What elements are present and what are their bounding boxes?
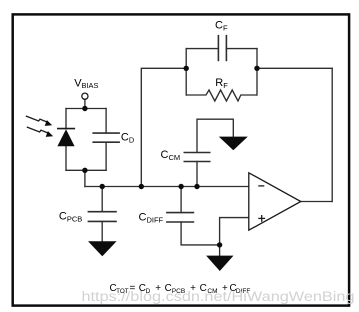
capacitor CDIFF plates: [166, 212, 194, 214]
wire CDIFF ground stub: [219, 245, 221, 256]
wire feedback riser: [141, 68, 186, 186]
capacitor CD plates: [92, 132, 120, 134]
node CPCB tap: [100, 184, 105, 189]
wire CF top left segment: [186, 48, 218, 50]
wire feedback top to output: [257, 67, 332, 69]
wire feedback box right edge: [256, 49, 258, 95]
capacitor CF plates: [217, 35, 219, 61]
terminal VBIAS: [82, 93, 88, 99]
wire feedback box left edge: [185, 49, 187, 95]
node feedback left: [184, 66, 189, 71]
node feedback right: [254, 66, 259, 71]
wire VBIAS stub: [84, 99, 86, 108]
ground CPCB: [88, 241, 117, 256]
wire diode branch upper: [65, 109, 67, 129]
node feedback tap: [139, 184, 144, 189]
wire CPCB upper: [101, 187, 103, 212]
svg-text:https://blog.csdn.net/HiWangWe: https://blog.csdn.net/HiWangWenBing: [82, 289, 355, 304]
wire CF top right segment: [226, 48, 257, 50]
wire CCM upper to ground: [197, 119, 233, 152]
light arrow 1: [26, 116, 52, 126]
wire photodiode loop top: [66, 108, 106, 110]
capacitor CCM plates: [184, 152, 211, 154]
resistor RF: [186, 90, 257, 101]
wire photodiode loop bottom: [66, 169, 106, 171]
photodiode D1 triangle: [57, 129, 74, 146]
wire CCM lower: [196, 162, 198, 187]
wire CDIFF upper: [180, 187, 182, 213]
wire op-amp output: [301, 201, 332, 203]
wire output riser: [331, 68, 333, 201]
wire CDIFF lower: [181, 222, 220, 245]
node CDIFF tap: [178, 184, 183, 189]
node noninverting junction: [217, 242, 222, 247]
node loop top: [82, 106, 87, 111]
ground CDIFF: [206, 256, 233, 271]
wire CPCB lower: [101, 221, 103, 241]
capacitor CPCB plates: [88, 211, 117, 213]
photodiode D1 cathode bar: [57, 128, 75, 130]
wire CD branch lower: [105, 142, 107, 170]
node CCM tap: [194, 184, 199, 189]
wire CD branch upper: [105, 109, 107, 134]
wire noninverting input: [220, 218, 249, 245]
op-amp U1: [249, 173, 301, 230]
light arrow 2: [27, 127, 53, 137]
wire loop to input rail: [84, 170, 86, 186]
wire input rail: [85, 186, 249, 188]
ground CCM: [219, 137, 248, 151]
wire diode branch lower: [65, 146, 67, 170]
formula CTOT: [110, 283, 251, 295]
node loop bottom: [82, 168, 87, 173]
